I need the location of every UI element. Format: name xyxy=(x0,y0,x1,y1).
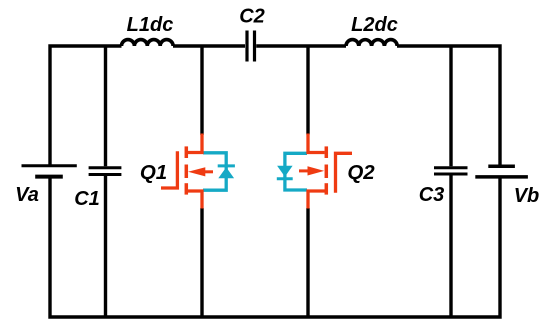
svg-text:L1dc: L1dc xyxy=(127,14,174,36)
transistor Q2 arrow head xyxy=(308,166,325,175)
capacitor C3 xyxy=(434,168,468,174)
diode D2 body loop xyxy=(285,153,307,190)
diode D2 cathode bar xyxy=(277,177,293,180)
wire C3 bottom xyxy=(449,176,452,318)
svg-text:Q1: Q1 xyxy=(140,161,167,184)
wire left rail top xyxy=(50,46,122,165)
diode D1 cathode bar xyxy=(218,164,235,167)
wire C3 top xyxy=(449,46,452,166)
diode D1 body loop xyxy=(203,153,226,190)
inductor L1dc xyxy=(122,40,174,46)
wire top mid-right xyxy=(256,44,346,47)
capacitor C2 xyxy=(247,31,255,62)
wire top rail right xyxy=(397,46,500,165)
wire Q2 source black xyxy=(306,208,309,317)
svg-text:Vb: Vb xyxy=(514,185,540,207)
battery Vb xyxy=(475,166,528,177)
svg-text:Va: Va xyxy=(15,184,39,206)
wire Q1 drain black xyxy=(200,46,203,135)
capacitor C1 xyxy=(89,168,122,175)
transistor Q1 arrow head xyxy=(188,167,205,176)
svg-text:C2: C2 xyxy=(239,6,265,28)
svg-text:C3: C3 xyxy=(419,184,445,206)
diode D1 triangle xyxy=(218,167,234,178)
transistor Q2 xyxy=(299,134,352,209)
inductor L2dc xyxy=(346,40,397,46)
wire Q1 source black xyxy=(200,208,203,317)
svg-text:Q2: Q2 xyxy=(347,161,375,184)
wire Q2 drain black xyxy=(306,46,309,135)
wire bottom loop xyxy=(50,177,500,317)
wire C1 top xyxy=(104,46,107,166)
svg-text:C1: C1 xyxy=(74,188,100,210)
transistor Q1 xyxy=(161,134,213,209)
wire C1 bottom xyxy=(104,176,107,317)
diode D2 triangle xyxy=(277,166,293,177)
wire top mid-left xyxy=(173,44,245,47)
svg-text:L2dc: L2dc xyxy=(351,14,398,36)
battery Va xyxy=(22,166,77,177)
